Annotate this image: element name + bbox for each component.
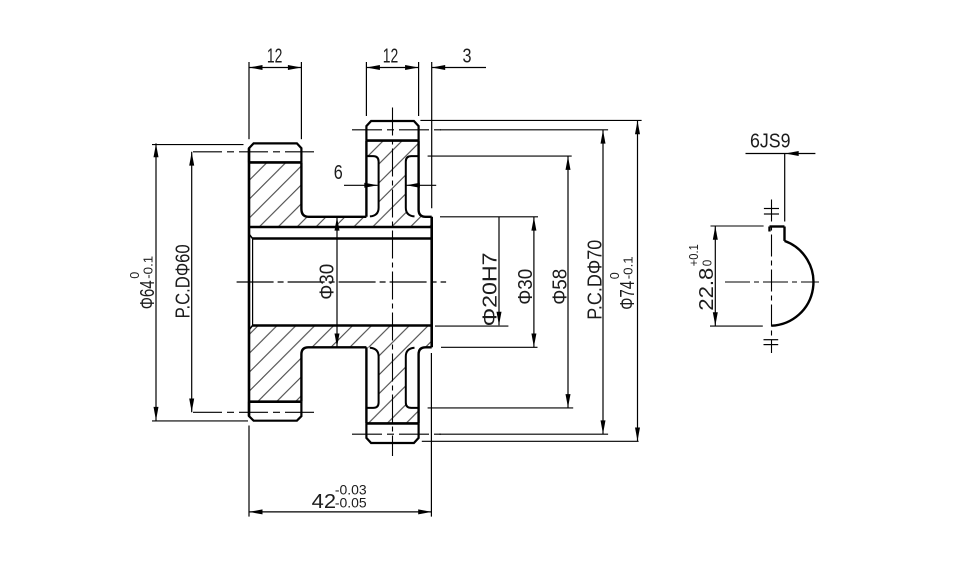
right plate left edge bottom — [365, 347, 367, 423]
leader line dia20H7 — [498, 217, 500, 325]
svg-text:-0.1: -0.1 — [141, 256, 156, 279]
dim text PCD70 — [585, 240, 607, 320]
right plate left edge top — [365, 141, 367, 217]
right tooth root line bottom — [366, 422, 419, 425]
svg-text:-0.1: -0.1 — [621, 256, 636, 279]
svg-text:Φ30: Φ30 — [515, 269, 537, 305]
extension line dia64 top — [152, 144, 244, 146]
bore dia20 bottom line — [253, 324, 432, 327]
extension line dia58 bottom — [428, 407, 574, 409]
right tooth side relief slot left bottom — [366, 348, 378, 408]
bore chamfer edge line — [252, 239, 254, 326]
left tooth root line bottom — [249, 400, 302, 403]
extension line right face — [431, 62, 433, 208]
hatched section: lower half of sprocket body — [249, 326, 432, 424]
keyway bottom line — [249, 226, 432, 229]
extension line 22.8 bottom — [710, 325, 763, 327]
dim text dia64 with tolerance — [127, 256, 159, 310]
dim line 6 right part — [406, 184, 436, 186]
left face line — [248, 148, 251, 416]
dim line dia58 — [567, 156, 569, 408]
bore chamfer top — [249, 234, 253, 238]
left plate inner edge + groove bottom top — [301, 162, 366, 216]
bore chamfer bottom — [249, 326, 253, 330]
pitch circle dia60 centerline bottom — [193, 411, 315, 413]
left tooth cap dia64 — [249, 143, 301, 162]
svg-text:P.C.DΦ70: P.C.DΦ70 — [585, 240, 607, 320]
pitch circle dia70 centerline bottom — [352, 433, 443, 435]
extension line dia30 top — [440, 216, 538, 218]
svg-text:Φ20H7: Φ20H7 — [480, 252, 502, 326]
svg-text:12: 12 — [267, 45, 283, 67]
dim text 22.8 with tolerance — [687, 244, 718, 311]
right tooth centerline — [392, 108, 394, 457]
extension line PCD70 top — [440, 129, 608, 131]
extension line — [300, 62, 302, 139]
dim line PCD70 — [602, 130, 604, 434]
extension line dia30 bottom — [441, 346, 538, 348]
extension line dia74 top — [420, 119, 641, 121]
extension line 22.8 top — [711, 225, 764, 227]
svg-text:12: 12 — [383, 45, 399, 67]
break mark top 2 — [764, 213, 779, 215]
dim line 12 right — [366, 67, 418, 69]
right tooth side relief slot left top — [366, 156, 378, 216]
extension line dia58 top — [428, 155, 572, 157]
vertical centerline side view — [771, 200, 773, 354]
extension line — [418, 62, 420, 116]
right tooth root line — [366, 139, 419, 142]
svg-text:0: 0 — [700, 260, 714, 267]
extension line 42 left — [248, 426, 250, 517]
dim line 12 left — [249, 67, 301, 69]
dim line dia74 — [637, 120, 639, 441]
break mark top 1 — [764, 208, 779, 210]
svg-text:22.8: 22.8 — [696, 268, 718, 311]
break mark bottom 1 — [764, 339, 779, 341]
bore arc side view — [772, 241, 814, 326]
dim line PCD60 — [191, 152, 193, 413]
left plate inner edge + groove bottom bottom — [301, 347, 366, 401]
right tooth side relief slot right top — [406, 156, 419, 216]
bore dia20 top line — [253, 237, 432, 240]
left tooth cap dia64 bottom — [249, 402, 301, 421]
svg-text:6: 6 — [334, 162, 343, 184]
keyway left stub — [768, 227, 770, 232]
horizontal centerline side view — [725, 281, 819, 283]
pitch circle dia70 centerline top — [352, 129, 443, 131]
leader to keyway wall — [784, 154, 786, 222]
svg-text:3: 3 — [463, 45, 472, 67]
label underline — [746, 153, 786, 155]
dim line dia64 — [155, 143, 157, 420]
extension line dia20 bottom — [435, 325, 508, 327]
leader arrow line — [785, 153, 815, 155]
main axis centerline — [237, 281, 447, 283]
extension line dia74 bottom — [422, 440, 639, 442]
dim text dia74 with tolerance — [607, 256, 639, 310]
extension line dia64 bottom — [152, 420, 248, 422]
dim line dia30 hub — [336, 217, 338, 347]
dim text dia58 — [549, 269, 571, 305]
right tooth cap dia74 bottom — [366, 423, 418, 443]
dim line dia30 right — [533, 217, 535, 347]
right tooth cap dia74 — [366, 121, 418, 141]
break mark bottom 2 — [764, 344, 779, 346]
right plate right edge + hub step bottom — [419, 347, 432, 423]
keyway right wall side view — [783, 227, 785, 241]
svg-text:Φ74: Φ74 — [617, 281, 639, 310]
dim text PCD60 — [173, 244, 195, 318]
extension line — [248, 62, 250, 139]
right hub face — [430, 217, 433, 347]
svg-text:Φ64: Φ64 — [137, 280, 159, 309]
pitch circle dia60 centerline top — [193, 151, 315, 153]
extension line 42 right — [430, 353, 432, 517]
keyway bottom side view — [770, 225, 785, 227]
svg-text:+0.1: +0.1 — [687, 244, 701, 266]
dim text dia30 hub — [317, 264, 339, 300]
svg-text:Φ30: Φ30 — [317, 264, 339, 300]
extension line — [365, 62, 367, 116]
right tooth side relief slot right bottom — [406, 348, 419, 408]
dim text dia30 right — [515, 269, 537, 305]
svg-text:6JS9: 6JS9 — [750, 130, 791, 152]
svg-text:42: 42 — [312, 490, 336, 513]
dim line 6 left part — [344, 184, 378, 186]
left tooth root line — [249, 161, 302, 164]
svg-text:P.C.DΦ60: P.C.DΦ60 — [173, 244, 195, 318]
dim line 42 — [249, 511, 432, 513]
right plate right edge + hub step top — [419, 141, 432, 217]
dim line 22.8 — [714, 226, 716, 326]
extension line PCD70 bottom — [439, 433, 608, 435]
svg-text:Φ58: Φ58 — [549, 269, 571, 305]
hatched section: upper half of sprocket body — [249, 141, 432, 227]
dim line 3 — [432, 67, 486, 69]
dim text dia20H7 — [480, 252, 502, 326]
svg-text:-0.05: -0.05 — [335, 495, 367, 510]
